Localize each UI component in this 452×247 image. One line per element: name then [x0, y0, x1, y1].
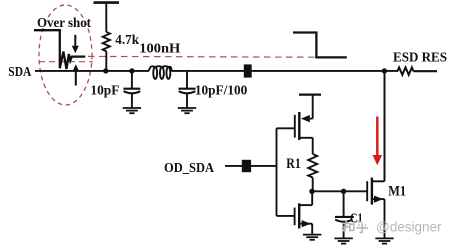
M1 source vertical: [384, 199, 386, 238]
PMOS source lead + arrow into channel: [305, 118, 313, 120]
M1 drain lead: [373, 180, 385, 182]
NMOS channel bar: [298, 203, 300, 228]
resistor 4.7k: [103, 32, 110, 51]
capacitor C1 lead: [343, 191, 345, 216]
svg-text:Over shot: Over shot: [37, 16, 91, 31]
annotation up arrow: [72, 64, 79, 85]
wire: cap to ground: [186, 94, 188, 108]
svg-text:R1: R1: [286, 156, 301, 172]
power rail bar above 4.7k: [94, 1, 120, 4]
svg-text:ESD RES: ESD RES: [393, 51, 447, 66]
wire: main SDA line (left of coil): [35, 70, 148, 72]
ideal step waveform (top right): [293, 33, 347, 58]
wire: main SDA line (right of coil): [171, 70, 398, 72]
transistor M1: [367, 178, 384, 239]
capacitor 10pF lead: [131, 71, 133, 88]
inductor 100nH: [148, 66, 172, 79]
NMOS source lead + arrow out: [300, 223, 312, 225]
svg-text:M1: M1: [388, 183, 406, 199]
NMOS drain lead: [300, 204, 312, 206]
node junction (M1 drain / SDA): [382, 68, 387, 73]
resistor R1: [308, 154, 317, 178]
power rail bar above PMOS: [299, 93, 321, 95]
overshoot waveform (falling edge with ringing): [34, 30, 85, 69]
wire: resistor to node: [105, 51, 107, 71]
M1 source lead + arrow out: [373, 198, 385, 200]
PMOS drain lead: [300, 137, 312, 139]
svg-text:100nH: 100nH: [139, 41, 180, 56]
capacitor 10pF plates: [123, 88, 140, 90]
wire: node to M1 gate: [312, 190, 367, 192]
wire: C1 to ground: [343, 222, 345, 238]
transistor NMOS pull-down: [277, 191, 313, 234]
resistor ESD RES: [398, 67, 414, 74]
svg-text:OD_SDA: OD_SDA: [164, 160, 214, 175]
NMOS gate lead: [277, 215, 295, 217]
wire: PMOS drain to R1: [312, 138, 314, 154]
svg-text:10pF/100: 10pF/100: [195, 84, 247, 99]
wire: OD_SDA input: [225, 165, 277, 167]
M1 gate bar: [366, 181, 368, 201]
ground (under M1): [375, 238, 393, 243]
annotation down arrow: [72, 35, 79, 53]
svg-text:@designer: @designer: [376, 219, 442, 235]
node junction (4.7k / SDA): [103, 68, 108, 73]
red current arrow: [373, 117, 383, 166]
transistor PMOS pull-up: [277, 112, 313, 140]
wire: ESD res to right end: [413, 70, 437, 72]
watermark 知乎 glyphs: [342, 221, 368, 233]
svg-text:4.7k: 4.7k: [115, 33, 139, 48]
node junction (R1 / NMOS drain / M1 gate): [309, 189, 314, 194]
ground (under 10pF/100): [178, 108, 196, 113]
red dashed ellipse around overshoot waveform: [39, 5, 92, 105]
svg-text:10pF: 10pF: [90, 84, 119, 99]
wire: R1 to node: [312, 178, 314, 192]
NMOS drain vertical to node: [311, 191, 313, 205]
node junction (cap1 / SDA): [129, 68, 134, 73]
wire: rail to PMOS source: [312, 95, 314, 119]
wire: gate bus vertical: [276, 128, 278, 216]
capacitor 10pF/100 lead: [186, 71, 188, 88]
PMOS gate bar: [294, 115, 296, 138]
wire: M1 drain vertical: [384, 71, 386, 181]
node junction (C1 tap): [341, 189, 346, 194]
PMOS gate lead: [277, 127, 295, 129]
ground (inverter NMOS): [303, 235, 321, 240]
node square on SDA line: [244, 64, 252, 77]
wire: rail to resistor: [105, 3, 107, 32]
node square on OD_SDA line: [242, 160, 251, 172]
NMOS source vertical: [311, 224, 313, 235]
NMOS gate bar: [294, 208, 296, 226]
wire: cap to ground: [131, 94, 133, 108]
capacitor 10pF/100 plates: [179, 88, 196, 90]
svg-text:SDA: SDA: [8, 64, 31, 79]
M1 channel bar: [371, 178, 373, 205]
red dashed overshoot level line (short, inside ellipse): [39, 61, 93, 63]
PMOS channel bar: [298, 112, 300, 140]
red dashed settle level line (long, to right waveform): [88, 55, 316, 58]
ground (under 10pF): [123, 108, 141, 113]
ground (under C1): [334, 238, 352, 243]
capacitor C1 plates: [335, 216, 354, 218]
